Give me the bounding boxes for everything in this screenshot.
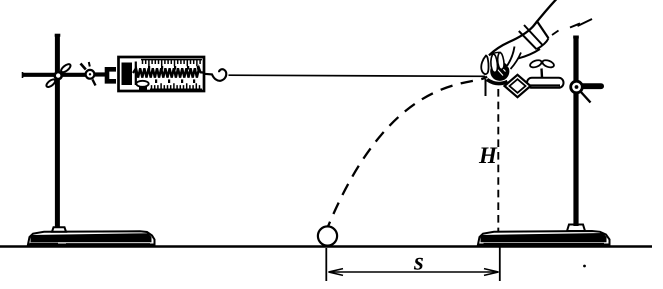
- clamp diamond jaw: [505, 75, 531, 97]
- ball held in hand: [490, 62, 509, 81]
- cuff: [519, 21, 559, 50]
- top ruler ticks: [141, 60, 202, 67]
- right crossbar: [578, 83, 604, 89]
- sleeve lower line: [570, 19, 592, 28]
- dashed trajectory: [328, 77, 487, 228]
- s dimension right extension line: [499, 247, 501, 281]
- clamp holding spring scale: [81, 62, 96, 86]
- string from hook to ball: [229, 75, 486, 76]
- right rod clamp: [571, 81, 583, 93]
- dashed vertical H line: [497, 89, 499, 246]
- hook of spring scale: [204, 69, 226, 81]
- svg-text:H: H: [478, 143, 498, 168]
- left stand rod: [55, 35, 60, 228]
- hand bottom edge: [508, 49, 540, 66]
- left stand base: [28, 231, 155, 244]
- ball at landing point: [318, 226, 337, 245]
- scale zero block: [122, 63, 133, 86]
- release platform below ball: [485, 79, 487, 96]
- connector rod clamp to yoke: [94, 72, 106, 76]
- middle finger: [491, 54, 498, 72]
- dot mark lower right: [583, 265, 586, 268]
- clamp arm bar to ball: [527, 78, 564, 88]
- bottom ruler numerals: [155, 79, 195, 83]
- clamp handle: [581, 92, 591, 103]
- knuckle ridge: [489, 52, 501, 55]
- right stand rod: [573, 37, 578, 226]
- spring scale body: [119, 57, 205, 91]
- ring finger: [498, 53, 504, 70]
- sleeve upper line: [489, 0, 557, 55]
- s dimension arrow: [329, 269, 499, 276]
- zero adjust tab: [136, 81, 148, 87]
- right stand rod foot: [567, 225, 585, 232]
- spring coil: [133, 68, 204, 77]
- index finger: [481, 56, 488, 75]
- bottom ruler ticks: [150, 83, 202, 89]
- right stand base: [478, 231, 610, 245]
- wing nut on arm: [529, 59, 555, 78]
- left horizontal support bar: [22, 73, 87, 77]
- top ruler numerals: [148, 66, 199, 70]
- pointer: [135, 62, 137, 86]
- yoke bracket of spring scale: [107, 69, 116, 81]
- ground line: [0, 245, 652, 248]
- s dimension left extension line: [325, 248, 327, 281]
- thumb: [507, 47, 521, 70]
- svg-text:s: s: [413, 249, 424, 276]
- left stand rod foot: [52, 227, 66, 232]
- clamp on left rod (bosshead with wing ears): [45, 63, 72, 89]
